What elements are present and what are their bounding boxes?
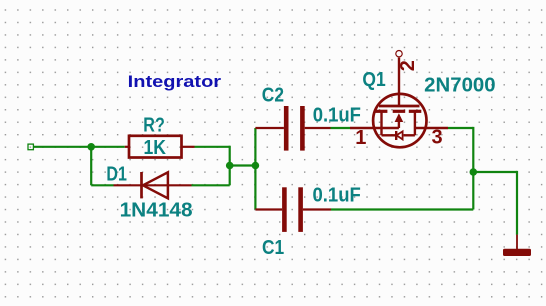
svg-text:2: 2 (397, 60, 419, 71)
svg-text:1: 1 (355, 127, 366, 149)
Q1 body circle (373, 94, 426, 147)
Q1 body diode rail (382, 134, 396, 136)
Q1 channel segment right (409, 110, 422, 113)
wire C1 to vertical (331, 208, 473, 210)
node C junction dot (252, 162, 260, 170)
wire resistor to corner B (195, 146, 230, 148)
Q1 gate bar (379, 105, 420, 108)
Q1 body diode (395, 131, 397, 140)
resistor R? (125, 136, 195, 158)
node D junction dot (470, 168, 478, 176)
svg-text:C2: C2 (262, 85, 284, 107)
wire corner D down to C1 level (472, 127, 474, 210)
ground (503, 235, 531, 256)
wire ground branch down (516, 171, 518, 235)
svg-text:Q1: Q1 (362, 69, 385, 91)
svg-text:1K: 1K (144, 137, 167, 159)
node B junction dot (226, 162, 234, 170)
wire corner B down (229, 146, 231, 186)
wire capacitor branch vertical (254, 128, 256, 210)
wire Q1 drain to corner D (448, 127, 473, 129)
input port square (28, 144, 33, 150)
wire input to junction A (33, 146, 91, 148)
Q1 pin 3 lead (415, 127, 448, 129)
transistor Q1 (350, 51, 448, 148)
capacitor C2 (255, 106, 330, 151)
svg-text:3: 3 (432, 127, 443, 149)
node A junction dot (87, 143, 95, 151)
wire junction A to resistor (91, 146, 125, 148)
wire diode anode side (91, 184, 113, 186)
wire junction B to junction C (230, 164, 256, 166)
Q1 drain connector (414, 111, 416, 135)
Q1 unconnected pin circle (396, 51, 402, 57)
wire junction D to ground branch (473, 171, 517, 173)
Q1 channel segment left (375, 110, 388, 113)
Q1 bulk arrow (398, 121, 400, 128)
Q1 channel segment centre (393, 110, 406, 113)
svg-text:0.1uF: 0.1uF (313, 184, 361, 206)
svg-text:0.1uF: 0.1uF (313, 104, 361, 126)
wire junction A down to diode (90, 147, 92, 186)
Q1 pin 1 lead (350, 127, 399, 129)
svg-text:C1: C1 (262, 237, 284, 259)
wire diode cathode side (192, 184, 230, 186)
Q1 pin 2 lead (398, 58, 400, 106)
svg-text:2N7000: 2N7000 (424, 75, 495, 97)
svg-text:D1: D1 (106, 164, 127, 186)
wire C2 to transistor gate-side pin (331, 127, 351, 129)
diode D1 (114, 172, 192, 198)
Q1 source connector (380, 111, 382, 135)
svg-text:1N4148: 1N4148 (120, 200, 193, 222)
svg-text:R?: R? (143, 115, 165, 137)
capacitor C1 (255, 187, 331, 232)
svg-text:Integrator: Integrator (128, 72, 222, 91)
